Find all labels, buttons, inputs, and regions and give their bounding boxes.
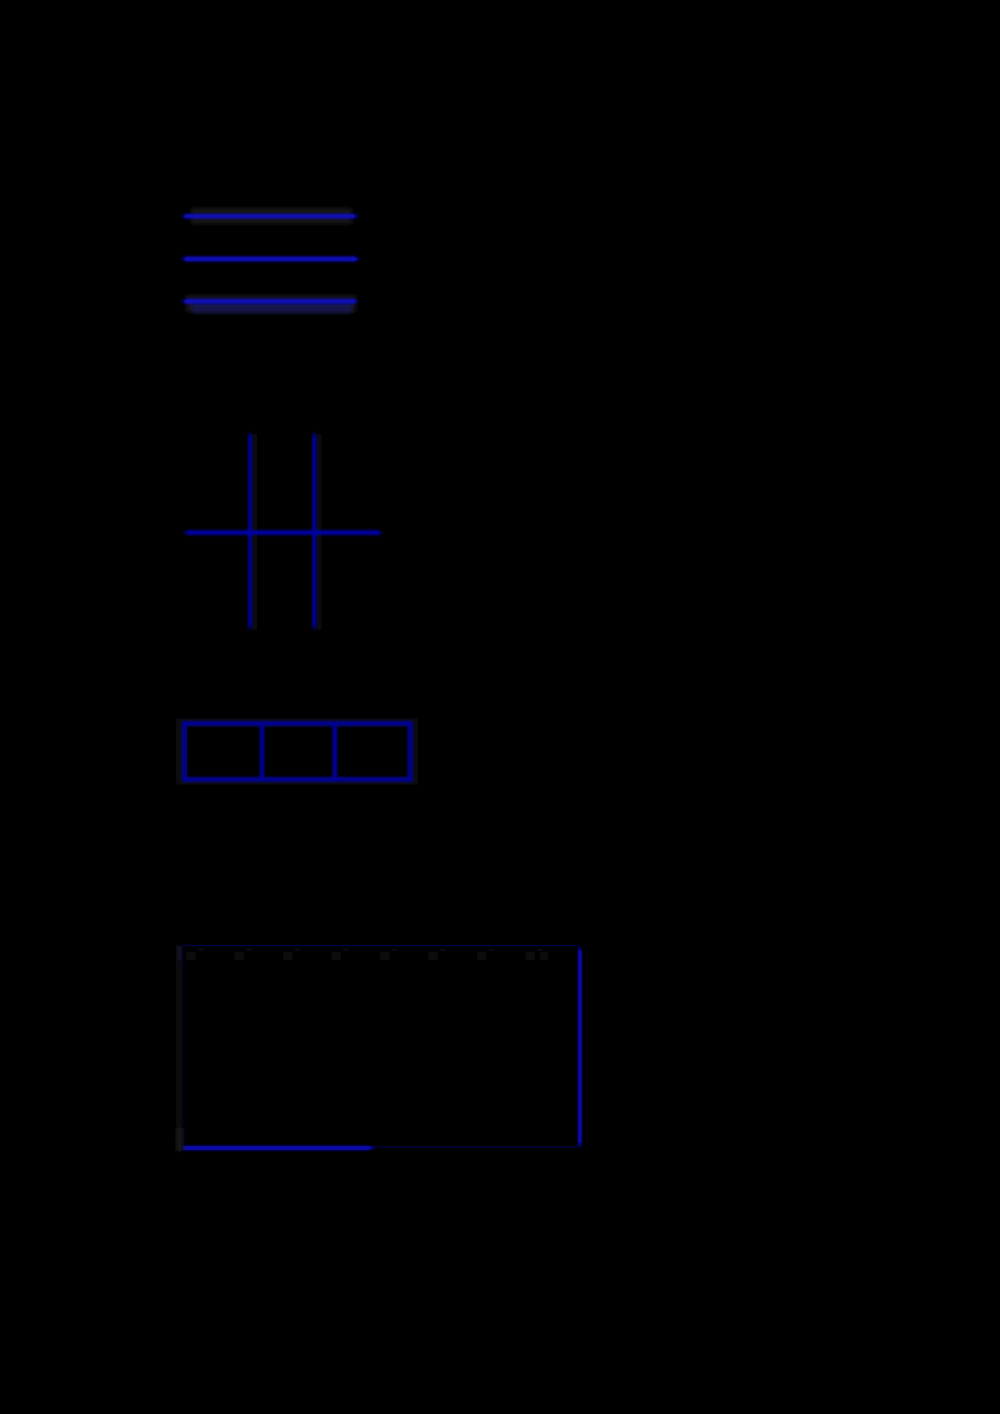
highlight rect behind wire W3 [186,295,356,312]
bus highlight bottom-left edge of IC U1 [183,1146,376,1151]
resistor network RN1 divider pin 2 [332,724,337,780]
capacitor C1 plate 2 [313,431,317,631]
IC U1 body outline [183,946,579,1148]
net highlight under wire W3 [192,303,352,313]
highlight rect behind resistor network RN1 [176,719,418,785]
IC U1 pin-row dashes [186,952,548,960]
IC U1 pin-number ticks [198,948,544,952]
shadow band along IC U1 left edge [176,945,182,1151]
ground pad at IC U1 bottom-left [177,1128,184,1151]
highlight rect behind wire W1 [191,208,352,224]
wire W3 (double-headed arrow) [181,298,359,304]
bus highlight right edge of IC U1 [578,946,582,1148]
wire W2 (double-headed arrow) [181,256,360,262]
IC U1 pin 1 tick mark [179,947,182,960]
resistor network RN1 outline [184,724,410,780]
shadow band of capacitor plate 1 [252,434,257,630]
wire W4 through capacitor C1 [183,530,383,536]
wire W1 (double-headed arrow) [181,213,359,219]
capacitor C1 plate 1 [248,431,252,631]
shadow band of capacitor plate 2 [317,434,322,630]
resistor network RN1 divider pin 1 [260,724,265,780]
resistor network RN1 interior [187,727,409,778]
